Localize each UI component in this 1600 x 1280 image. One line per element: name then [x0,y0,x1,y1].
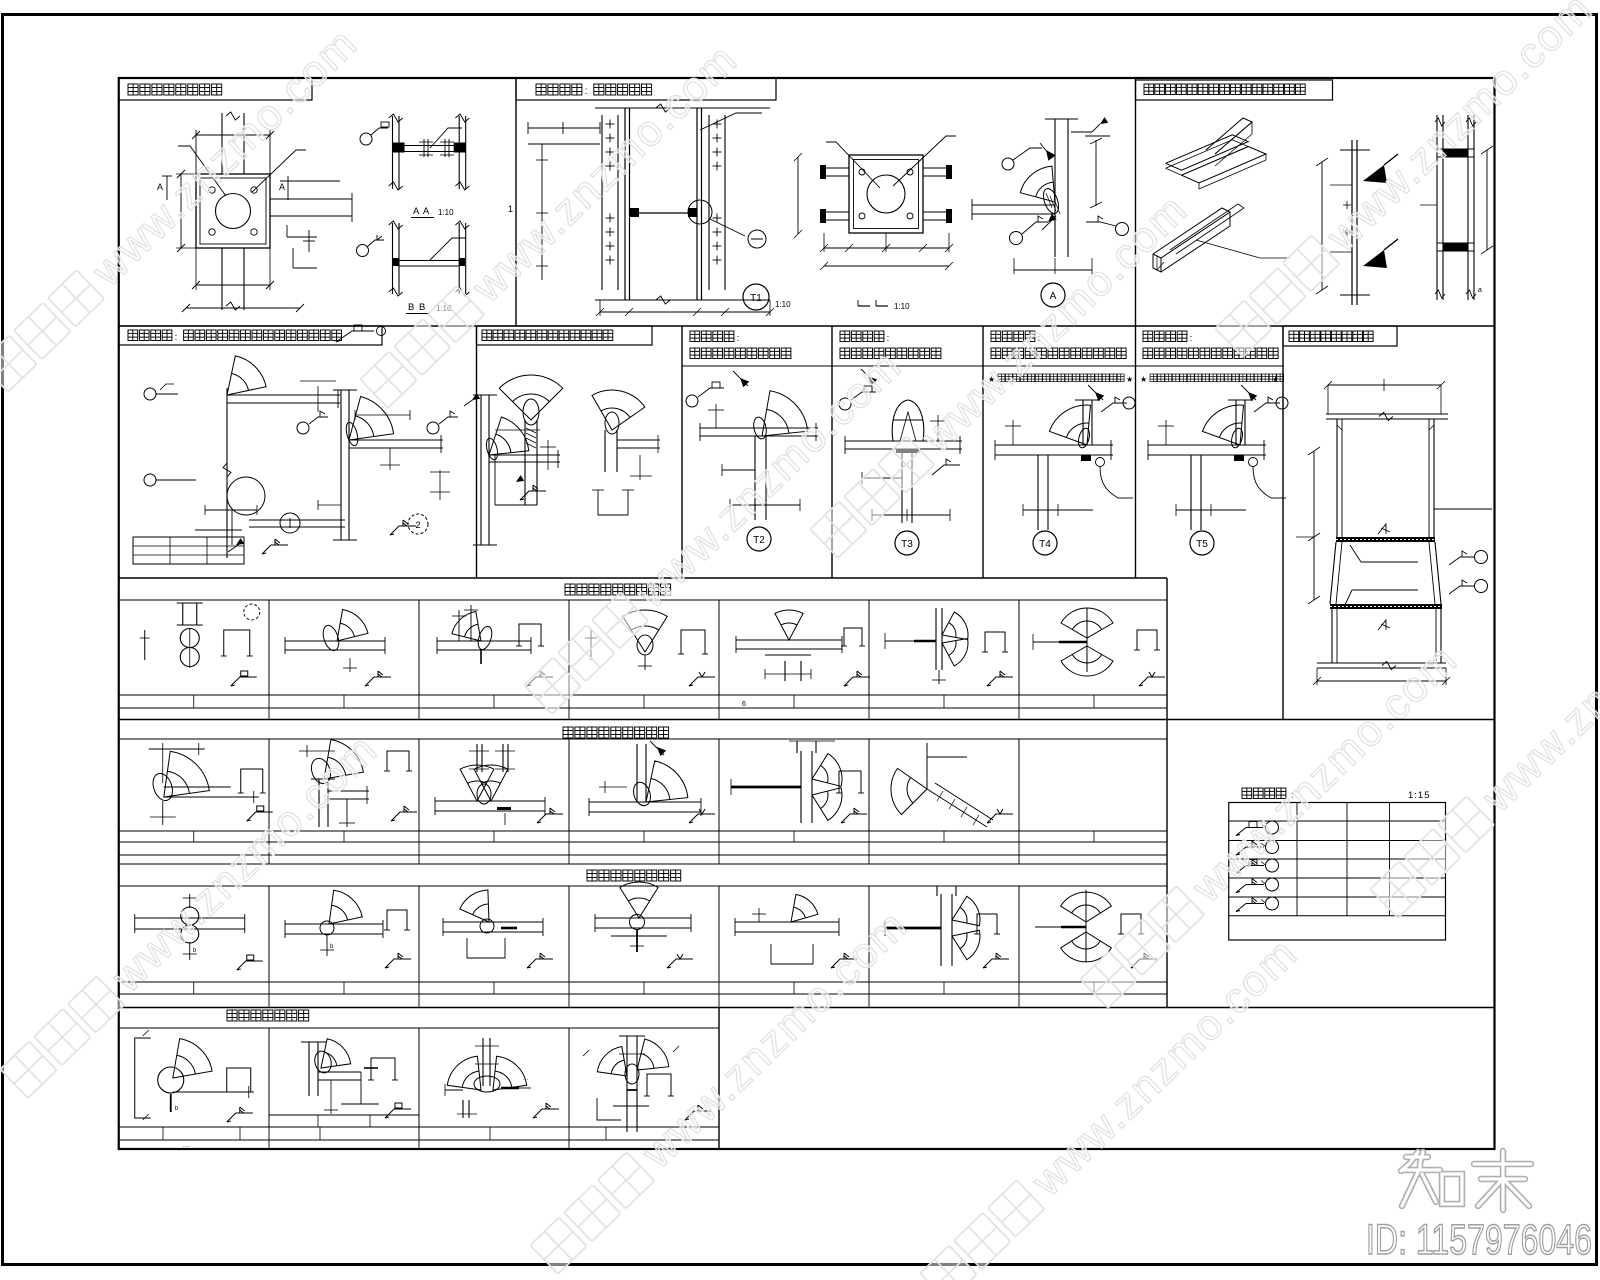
T4 fan [1049,405,1090,445]
P5 lower small brackets [598,490,628,515]
row1 panel divider x1135 [1135,78,1137,326]
watermark run [523,341,911,718]
svg-text:T5: T5 [1196,539,1208,550]
row5 cell1 drawing [135,917,245,919]
P4 sub-b dims [355,414,410,416]
P1 dim line bottom [196,284,270,286]
P2 plan circle [867,175,905,213]
svg-text::: : [887,333,890,344]
row3 table lines [119,694,1167,696]
svg-text::: : [175,332,178,343]
T2 ticks above beam [715,404,717,428]
P1 dim line top [196,134,270,136]
P1 bolt holes [209,187,215,193]
watermark run [529,901,917,1278]
panel T2 title underline [682,365,832,367]
P7 bottom beam lines [1317,662,1446,664]
panel T3 title underline [832,365,983,367]
T5 ticks left [1165,420,1167,445]
row3 cell1 drawing [144,630,146,660]
P1 A-A weld blobs [393,143,405,153]
T2 vertical stiffener below [754,436,756,520]
P1 small angle detail lower right [292,248,294,268]
legend weld symbols [1236,828,1264,836]
T3 ticks right [937,415,939,441]
P1 beam to right [270,198,352,200]
P2 leader to minus symbol [710,219,745,236]
row2 panel divider x983 [982,326,984,578]
P4 sub-a column face line [226,388,228,558]
T3 dim bracket [862,477,902,479]
P3 middle detail plate [1351,140,1353,305]
panel P5 title text [482,330,492,341]
P2 plan square outer [849,155,923,233]
svg-text:T3: T3 [901,539,913,550]
P2 plan dim below [824,247,949,249]
P2 label A circle [1041,283,1065,307]
T3 label circle [895,531,919,555]
P2 weld bead lens [1040,187,1061,216]
P1 center hole circle [216,194,251,229]
P1 gusset square inner [200,178,266,244]
P2 plan leader top [826,142,880,188]
P7 upper column [1336,419,1338,537]
svg-text:1:10: 1:10 [775,300,791,309]
panel P4 title text [128,330,138,341]
svg-text::: : [1190,333,1193,344]
panel P1 title text [128,84,138,95]
P4 sub-c weld symbol [520,491,546,500]
P3 right section verticals [1436,115,1438,300]
T4 flag top [1095,392,1104,401]
P2 plan bolt holes [859,169,865,175]
watermark run [919,929,1307,1280]
row4 cell6 drawing [926,743,928,789]
svg-text:★: ★ [1140,375,1147,384]
svg-text:...: ... [523,1076,528,1082]
T4 label circle [1033,531,1057,555]
P7 right horizontal tick [1434,508,1492,510]
P7 lower column [1331,609,1333,663]
P7 weld symbol circle 2 [1449,586,1474,594]
T5 flag top [1248,392,1257,401]
P1 A-A bolt marks [423,139,425,157]
P2 label T1 [743,284,769,310]
row6 right edge x719 [718,1008,720,1150]
P2 dim vertical left [541,144,543,280]
P4 sub-a flange plate [227,394,340,396]
T2 label circle [747,527,771,551]
P3 middle dim [1321,162,1323,290]
P2 top right leader [700,113,762,130]
svg-text:www.znzmo.com: www.znzmo.com [82,19,367,296]
row4 cell3 drawing [435,800,545,802]
legend title text [1242,788,1252,799]
P2 plan dim left [797,157,799,234]
row4 cell1 drawing [164,751,210,797]
svg-text:★: ★ [1126,375,1133,384]
T5 bolt circle [1249,458,1258,467]
P4 sub-a bottom plate lines [249,519,345,521]
P1 column center lines above plate [221,113,223,174]
row divider y1007 [119,1007,1495,1009]
legend table frame [1229,803,1446,941]
P2 weld symbol left [1010,232,1023,245]
P3 right dim [1486,150,1488,250]
T4 backing square [1081,455,1091,461]
row2 panel divider x1135 [1135,326,1137,578]
svg-text::: : [737,333,740,344]
row4 cell5 drawing [731,786,801,789]
row5 cell4 drawing [620,882,658,918]
P4 sub-c black flag top [472,393,480,400]
row4 table lines [119,830,1167,832]
svg-text:b: b [193,948,197,954]
row4 cell dividers [268,739,270,831]
svg-text:A: A [279,182,285,192]
T4 bolt circle [1096,458,1105,467]
row divider y326 [119,325,1495,327]
P2 plan bolts right [923,167,946,169]
panel P3 title text [1144,84,1154,95]
P1 dim bracket under beam [286,225,288,237]
P7 lower splice weld band [1330,604,1442,609]
P1 gusset square outer [196,174,270,248]
P2 right dim vertical [1095,140,1097,206]
P4 sub-c black flag bottom [516,475,524,482]
T2 dim bottom [730,504,800,506]
row divider y719 [119,719,1495,721]
P2 weld symbol right [1116,223,1129,236]
T5 stiffener below [1190,455,1192,530]
P3 middle ticks [1343,204,1351,206]
P4 sub-b weld symbol [390,526,416,535]
P2 dim lines top left [528,127,600,129]
svg-text:1:10: 1:10 [438,208,454,217]
P3 isometric channel [1153,208,1230,258]
P2 plan label [858,305,870,307]
P2 plan square inner [854,160,919,229]
P4 label circle 2 [408,514,428,534]
svg-text:T4: T4 [1039,539,1051,550]
panel T2 title text [690,331,700,342]
row4 title text [563,727,573,738]
T5 weld lens [1230,427,1245,449]
panel T5 title text [1143,331,1153,342]
T4 ticks left [1012,420,1014,445]
T4 dim bottom [1023,509,1093,511]
P1 dim line bottom wide [186,307,300,309]
T3 weld symbol right [932,465,960,475]
P5 left bracket [495,454,560,456]
P3 isometric leader [1196,240,1290,258]
row4 cell2 drawing [324,740,363,779]
row4 title line [119,738,1167,740]
row5 cell3 drawing [460,890,489,922]
svg-text:6: 6 [742,701,746,708]
P7 leader line lower splice [1352,589,1418,591]
row3 cell4 drawing [623,610,668,652]
row4 cell4 drawing [636,744,638,802]
P2 column right flange [696,108,698,300]
P3 isometric upright plate [1206,118,1252,154]
P7 left dim vertical [1313,451,1315,600]
panel T3 title text [840,331,850,342]
row6 title line [119,1027,719,1029]
P7 K mark lower [1378,620,1386,630]
row3 cell dividers [268,600,270,695]
row3 cell7 drawing [1086,608,1088,672]
P7 leader line upper splice [1361,561,1418,563]
P5 left U-groove fan [499,375,563,420]
P7 taper section [1330,542,1336,604]
P4 sub-a weld symbol [262,545,288,554]
P1 section A-A right plate pair [458,116,460,189]
P2 right bolt strip [708,115,710,290]
panel P2 title box [516,78,776,100]
T2 dim bracket left [722,469,755,471]
P4 sub-a dim ticks right [317,386,319,412]
P1 leader from right bolt [252,150,306,192]
P3 middle black arrow bottom [1363,250,1387,268]
svg-text:ID: 1157976046: ID: 1157976046 [1366,1216,1592,1264]
P2 black flag top [1046,150,1056,161]
row6 cell dividers [268,1028,270,1127]
P4 sub-c leader circle [427,422,439,434]
panel P3 title box [1136,80,1333,100]
P2 weld detail beam lines [972,204,1055,206]
P1 section A-A leader circle [360,133,372,145]
P1 section B-B right plate pair [458,223,460,294]
watermark run [1369,545,1600,922]
T3 big weld egg [892,400,924,441]
P1 column lines below plate [221,248,223,310]
P1 B-B leader diagonal [430,238,466,260]
row3 cell3 drawing [437,640,531,642]
panel P2 title text [536,84,546,95]
svg-text:A A: A A [413,206,430,217]
row5 cell7 drawing [1085,890,1087,962]
svg-text:2: 2 [415,520,420,530]
strip right edge x1167 [1166,578,1168,1008]
row3 cell2 drawing [285,640,385,642]
row5 title line [119,863,1167,865]
watermark run [1079,635,1467,1012]
watermark run [359,35,747,412]
row6 cell4 drawing [626,1036,628,1132]
svg-text:T1: T1 [750,293,762,304]
T3 beam flange [845,440,962,442]
P7 bottom dim line [1317,680,1446,682]
P4 sub-a black flag [236,538,244,545]
row divider y578 [119,577,1167,579]
P2 weld joint detail right: column plate [1054,119,1056,257]
P2 left bolt strip [601,115,603,290]
P4 sub-a leader balloon [227,477,265,515]
T5 beam flange [1148,444,1266,446]
P4 sub-b weld lens [344,421,360,447]
P1 leader to hole upper-left [178,146,226,196]
row6 cell3 drawing [482,1038,484,1086]
P5 right bracket plates [604,430,606,472]
watermark run [1214,0,1600,361]
svg-text:www.znzmo.com: www.znzmo.com [1472,545,1600,822]
panel P7 title text [1289,331,1299,342]
P2 bottom dim line [600,311,770,313]
T3 backing bar [896,449,920,453]
T4 weld lens [1077,427,1092,449]
T3 leader circle flag [839,398,851,410]
svg-text:1:10: 1:10 [894,302,910,311]
P3 isometric mid plate [1182,147,1267,183]
watermark run [809,185,1197,562]
P1 column break top [226,112,240,120]
P2 leader circle top-left [1002,158,1014,170]
svg-text:★: ★ [1272,375,1279,384]
P1 section A-A splice plate [399,145,459,147]
P2 black flag bottom [1048,214,1057,222]
P2 splice line [630,212,698,214]
panel T4 title text [991,331,1001,342]
svg-text:b: b [330,944,334,950]
svg-text:a: a [1478,287,1482,294]
row3 title text [565,584,575,595]
P4 sub-b leader circle [297,422,309,434]
P4 sub-a leader circle top [144,388,156,400]
svg-text:....: .... [183,1143,190,1149]
T2 black flag [740,378,749,387]
P7 top beam lines [1326,413,1448,415]
T5 leader curve [1253,467,1271,498]
P7 top dim line [1328,384,1441,386]
drawing area border [119,78,1495,1149]
P4 parameter table [133,537,244,564]
P2 weld detail bottom dims [1014,269,1092,271]
svg-text:B B: B B [408,302,426,313]
svg-text:www.znzmo.com: www.znzmo.com [632,901,917,1178]
T5 dim bottom [1176,509,1246,511]
T2 beam flange [700,427,818,429]
legend table rows [1229,820,1446,822]
P4 sub-a fan [227,356,266,395]
row3 cell5 drawing [775,610,803,640]
P2 top right flag leader [1071,124,1100,132]
P2 weld fan upper-left [1020,166,1055,202]
znzmo logo bottom right [1401,1151,1531,1210]
P1 section B-B leader circle [357,245,369,257]
svg-text:www.znzmo.com: www.znzmo.com [1022,929,1307,1206]
row2 panel divider x476 [476,326,478,578]
P4 sub-c weld lens [484,437,499,461]
T4 stiffener below [1037,455,1039,530]
P4 title weld symbol [336,331,374,342]
P4 sub-b beam flange [349,439,443,441]
T5 label circle [1190,531,1214,555]
watermark run [0,19,367,396]
P4 label circle 1 [280,513,300,533]
P3 isometric top plate [1166,135,1249,170]
T3 stiffener below [901,453,903,523]
P1 section A-A left plate pair [392,116,394,189]
svg-text:1:15: 1:15 [1408,790,1431,801]
T5 weld symbol leader [1254,403,1280,412]
P5 right weld lens [605,412,619,434]
P7 weld symbol circle 1 [1449,557,1474,565]
P4 sub-b column plate [340,390,342,540]
T4 diaphragm plate above [1082,400,1084,445]
variable-section panel left edge x1283 [1282,326,1284,720]
panel T4 title underline [983,365,1136,367]
T3 black flag [868,376,877,385]
T5 diaphragm plate above [1235,400,1237,445]
P4 sub-c beam flange [489,454,560,456]
watermark run [0,725,387,1102]
P1 column break bottom [226,302,240,310]
P2 splice leader circle [688,200,712,224]
T5 backing square [1234,455,1244,461]
P1 section B-B left plate pair [392,223,394,294]
row5 cell6 drawing [885,927,941,930]
svg-text:www.znzmo.com: www.znzmo.com [1317,0,1600,261]
row2 panel divider x682 [681,326,683,578]
svg-text::: : [585,86,588,97]
P1 section B-B splice plate [399,260,459,262]
T4 leader curve [1100,467,1118,498]
P5 left weld lens [523,399,539,425]
P2 column left flange [624,108,626,300]
P4 sub-c dims [495,429,540,431]
row6 title text [227,1010,237,1021]
row5 cell2 drawing [329,890,362,924]
panel P4 title box [119,326,382,345]
row5 cell5 drawing [791,894,818,922]
row3 title line [119,599,1167,601]
T4 beam flange [995,444,1113,446]
P3 middle black arrow top [1363,165,1387,183]
panel P7 title box [1283,326,1397,346]
T2 leader circle flag [686,395,698,407]
P1 dim line left [180,174,182,248]
P4 sub-c fan [489,417,529,455]
P4 sub-b fan [349,397,394,441]
P5 left plate below [524,420,526,505]
row6 cell1 drawing [135,1038,151,1118]
row2 panel divider x832 [831,326,833,578]
svg-text:T2: T2 [753,535,765,546]
P2 plan bolts left [826,167,849,169]
svg-text:1: 1 [508,204,513,214]
row1 panel divider x516 [515,78,517,326]
row5 table lines [119,981,1167,983]
row5 title text [587,870,597,881]
row3 cell6 drawing [935,608,937,670]
P2 column cap lines [595,107,770,109]
T2 fan [762,391,808,436]
P5 right fan [592,390,645,430]
panel P1 title box [119,78,312,100]
P4 sub-c column plate [480,395,482,545]
panel T5 title underline [1136,365,1284,367]
P1 A-A leader diagonal [430,128,462,148]
legend table columns [1296,803,1298,916]
P7 upper splice weld band [1336,537,1435,542]
T5 fan [1202,405,1243,445]
row6 cell2 drawing [308,1042,310,1096]
panel P5 title box [477,326,653,345]
svg-text:www.znzmo.com: www.znzmo.com [462,35,747,312]
P4 sub-a bottom bracket [205,509,257,511]
P3 right section plates [1443,149,1468,157]
